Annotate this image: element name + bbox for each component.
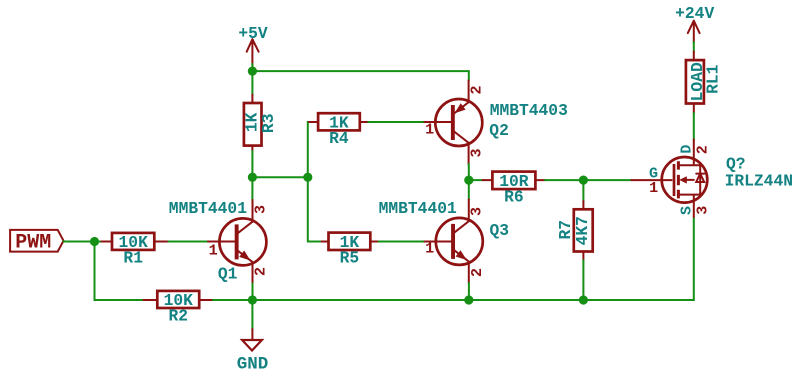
wire gate junction to FET gate (583, 179, 631, 181)
body diode (696, 165, 704, 194)
svg-text:R1: R1 (123, 248, 143, 267)
svg-text:2: 2 (469, 85, 486, 94)
svg-text:Q3: Q3 (490, 221, 510, 240)
wire Q3 emitter to bottom rail (468, 283, 470, 300)
svg-text:R2: R2 (169, 307, 189, 326)
svg-text:S: S (678, 206, 695, 215)
wire mid rail down to Q3 collector (468, 180, 470, 200)
resistor R2 (144, 291, 214, 326)
wire R4R5 column to R5 (308, 241, 320, 243)
svg-text:MMBT4401: MMBT4401 (169, 199, 247, 218)
wire PWM branch down to R2 row (95, 242, 145, 301)
resistor R5 (320, 233, 380, 268)
wire R4 to Q2 base (368, 121, 425, 123)
wire GND drop (251, 300, 253, 330)
wire cross link to R4/R5 column (252, 176, 307, 178)
wire R1 to Q1 base (169, 241, 211, 243)
power symbol +5V (238, 24, 268, 66)
wire R3 bottom to node (251, 151, 253, 177)
node junction Q3 emitter / bottom rail (464, 295, 473, 304)
resistor RL1 LOAD (686, 52, 723, 114)
svg-text:MMBT4403: MMBT4403 (490, 101, 568, 120)
resistor R7 (556, 201, 593, 261)
Q1 emitter arrow (239, 251, 250, 261)
svg-text:R4: R4 (329, 129, 349, 148)
wire PWM to R1 (64, 241, 104, 243)
svg-text:2: 2 (469, 268, 486, 277)
wire Q2 collector to mid rail (468, 164, 470, 180)
wire R6 to gate junction (545, 179, 583, 181)
resistor R3 (242, 95, 278, 152)
wire R5 to Q3 base (379, 241, 425, 243)
resistor R6 (483, 172, 546, 207)
wire Q1 emitter to bottom rail (252, 284, 254, 301)
svg-text:RL1: RL1 (704, 64, 723, 94)
ground (237, 329, 269, 375)
substrate arrow (685, 179, 694, 181)
svg-text:MMBT4401: MMBT4401 (379, 199, 457, 218)
node junction Q1 emitter / bottom rail (248, 295, 257, 304)
svg-text:R6: R6 (504, 188, 524, 207)
resistor R4 (309, 113, 369, 148)
svg-text:Q2: Q2 (489, 121, 509, 140)
wire R7 top (582, 180, 584, 201)
svg-text:+24V: +24V (675, 4, 714, 23)
svg-text:R7: R7 (556, 220, 575, 240)
transistor Q2 MMBT4403 (424, 81, 568, 165)
svg-text:R3: R3 (259, 114, 278, 134)
wire R2 to bottom rail junction (213, 299, 252, 301)
svg-text:D: D (678, 145, 695, 154)
wire R4-R5 vertical (308, 122, 310, 242)
gate bar (673, 164, 676, 196)
svg-text:IRLZ44N: IRLZ44N (725, 171, 793, 190)
svg-text:2: 2 (253, 267, 270, 276)
wire RL1 to FET drain (693, 113, 695, 140)
wire mid rail to R6 (469, 179, 483, 181)
channel bar dashes (677, 161, 680, 198)
gate pin (631, 179, 671, 181)
node junction R6 / R7 / gate (579, 176, 588, 185)
svg-text:1: 1 (649, 180, 658, 197)
svg-text:1: 1 (425, 241, 434, 258)
node junction on R4-R5 vertical (303, 173, 312, 182)
svg-text:PWM: PWM (15, 232, 51, 255)
source connection (678, 195, 700, 217)
global label PWM (10, 230, 63, 255)
transistor Q1 MMBT4401 (169, 199, 270, 284)
node junction mid rail (464, 176, 473, 185)
svg-text:3: 3 (469, 207, 486, 216)
svg-text:GND: GND (237, 355, 269, 375)
drain connection (678, 140, 700, 166)
wire top rail to Q2 emitter (252, 71, 468, 80)
svg-text:1: 1 (209, 243, 218, 260)
node junction R3 / Q1 collector (248, 173, 257, 182)
wire R7 bottom to rail (582, 260, 584, 300)
node junction +5V rail / R3 (248, 67, 257, 76)
Q2 emitter arrow (PNP, pointing to base) (455, 103, 466, 113)
transistor Q3 MMBT4401 (379, 199, 509, 283)
wire +24V to RL1 (693, 42, 695, 52)
svg-text:2: 2 (694, 145, 711, 154)
power symbol +24V (675, 4, 714, 43)
node junction PWM / R2 branch (90, 237, 99, 246)
svg-text:1: 1 (425, 122, 434, 139)
wire bottom rail segment to Q3 emitter (252, 299, 468, 301)
wire bottom rail to FET source (469, 217, 694, 300)
wire node to Q1 collector (251, 177, 253, 200)
svg-text:4K7: 4K7 (573, 216, 592, 245)
svg-text:R5: R5 (340, 249, 360, 268)
svg-text:3: 3 (253, 205, 270, 214)
wire +5V stub to rail (251, 64, 253, 71)
Q3 emitter arrow (456, 250, 467, 260)
svg-text:3: 3 (469, 148, 486, 157)
svg-text:Q1: Q1 (218, 264, 238, 283)
mosfet Q? IRLZ44N (631, 140, 793, 218)
wire R3 top (251, 71, 253, 95)
svg-text:3: 3 (694, 206, 711, 215)
resistor R1 (102, 233, 170, 268)
node junction R7 / bottom rail (579, 295, 588, 304)
